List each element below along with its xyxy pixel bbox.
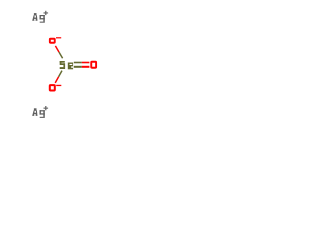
superscript minus — [56, 85, 61, 86]
superscript plus — [44, 106, 49, 110]
silver cation Ag+ (top) — [32, 11, 48, 23]
single bond O(top)-Se — [55, 46, 62, 58]
letter A — [32, 108, 37, 116]
letter O — [50, 39, 55, 43]
double bond Se=O — [74, 63, 90, 67]
oxygen O- (top, single-bonded) — [50, 37, 61, 43]
silver cation Ag+ (bottom) — [32, 106, 48, 118]
letter g — [40, 15, 45, 23]
selenium Se — [60, 61, 73, 69]
superscript plus — [44, 11, 49, 15]
letter e — [68, 63, 73, 70]
letter A — [32, 13, 37, 21]
superscript minus — [56, 37, 61, 38]
oxygen O- (bottom, single-bonded) — [50, 85, 62, 91]
letter O — [50, 85, 55, 90]
oxygen O (right, double-bonded) — [91, 62, 96, 68]
letter S — [60, 61, 65, 69]
single bond Se-O(bottom) — [55, 71, 62, 83]
letter g — [40, 110, 45, 118]
background — [0, 0, 130, 130]
